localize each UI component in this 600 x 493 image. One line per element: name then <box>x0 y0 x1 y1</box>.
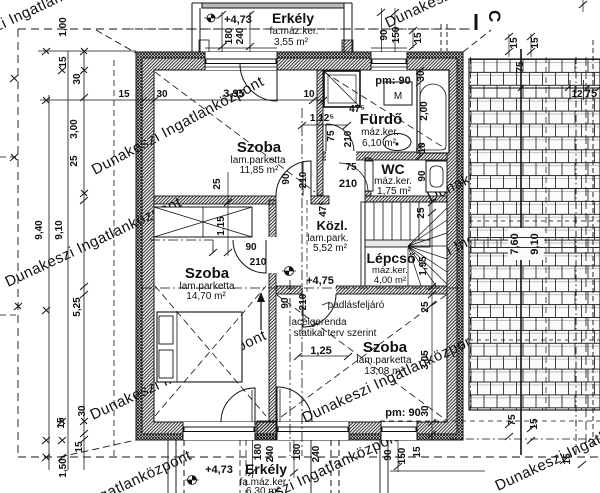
dashed vertical near left wall <box>113 60 115 456</box>
left dim chain lines <box>48 95 50 470</box>
svg-text:9,10: 9,10 <box>529 233 541 254</box>
svg-text:9,40: 9,40 <box>34 220 45 240</box>
partition wall A between top room and lower rooms <box>154 196 276 204</box>
dash-dot vertical right <box>575 57 577 455</box>
top balcony railing <box>202 3 344 8</box>
room diagonal TL <box>155 72 315 192</box>
washing machine M <box>384 82 412 105</box>
svg-text:1,25: 1,25 <box>310 345 331 357</box>
svg-text:3,00: 3,00 <box>69 119 80 139</box>
door arc BL balcony door <box>221 388 255 422</box>
roof tile area right <box>469 59 600 410</box>
top room dimension line <box>40 99 323 101</box>
svg-text:210: 210 <box>339 178 357 190</box>
svg-text:15: 15 <box>509 37 520 49</box>
hall left wall E <box>269 200 276 421</box>
svg-text:máz.ker.: máz.ker. <box>361 127 399 138</box>
svg-text:4,00 m²: 4,00 m² <box>374 275 406 286</box>
svg-text:10: 10 <box>303 89 315 100</box>
svg-text:30: 30 <box>72 73 83 85</box>
dashed dim band in tiles <box>469 220 600 222</box>
brick bottom ticks <box>505 421 586 468</box>
svg-text:30: 30 <box>420 405 431 417</box>
opening: bathroom window top <box>371 52 407 70</box>
svg-text:Szoba: Szoba <box>237 139 282 156</box>
dim line above top wall doors <box>205 47 277 49</box>
svg-text:15: 15 <box>413 32 424 44</box>
svg-text:1,00: 1,00 <box>58 17 69 37</box>
svg-text:Szoba: Szoba <box>363 339 408 356</box>
svg-text:3,05: 3,05 <box>420 350 431 370</box>
svg-text:240: 240 <box>311 445 322 462</box>
svg-text:3,95: 3,95 <box>223 88 244 100</box>
svg-text:90: 90 <box>383 449 394 461</box>
rotated dims <box>212 26 573 464</box>
bathtub <box>417 70 449 153</box>
svg-text:6,10 m²: 6,10 m² <box>362 138 397 149</box>
svg-text:5,52 m²: 5,52 m² <box>313 243 348 254</box>
roof outline dashed: left <box>17 29 19 457</box>
svg-text:2,00: 2,00 <box>419 101 430 121</box>
svg-text:5,25: 5,25 <box>72 297 83 317</box>
svg-text:WC: WC <box>381 161 404 177</box>
svg-text:1,50: 1,50 <box>58 458 69 478</box>
svg-text:240: 240 <box>235 27 246 44</box>
svg-text:1,95: 1,95 <box>418 256 429 276</box>
svg-text:15: 15 <box>562 453 573 465</box>
bottom right dashed lines <box>380 420 600 422</box>
level mark top balcony <box>204 14 218 22</box>
svg-text:Erkély: Erkély <box>272 10 314 26</box>
pier at bottom of wall E <box>257 421 276 434</box>
svg-text:75: 75 <box>515 61 526 73</box>
exterior insulation ring <box>136 52 463 440</box>
door arc bathroom <box>326 124 354 151</box>
section mark C line <box>475 14 478 30</box>
stair landing double line <box>365 240 430 247</box>
door arc hall to BL room <box>233 240 266 273</box>
svg-text:statikai terv szerint: statikai terv szerint <box>294 328 377 339</box>
svg-text:150: 150 <box>391 26 402 43</box>
svg-text:75: 75 <box>345 162 357 173</box>
brick top dim ticks <box>508 34 510 57</box>
svg-text:M: M <box>394 91 402 102</box>
svg-text:210: 210 <box>298 293 309 310</box>
door arc TL room to hall <box>276 161 311 196</box>
WC left wall <box>365 158 371 196</box>
svg-text:acélgerenda: acélgerenda <box>291 317 346 328</box>
roof outline dashed: bottom <box>18 456 600 458</box>
wardrobe height dim <box>227 172 229 256</box>
top right 15 tick <box>412 30 414 48</box>
svg-text:padlásfeljáró: padlásfeljáró <box>328 300 385 311</box>
bed in bottom-left room <box>157 312 242 382</box>
vertical line in tile area <box>520 49 522 455</box>
dimension line across tiles <box>469 87 600 89</box>
svg-text:15: 15 <box>118 89 130 100</box>
svg-text:15: 15 <box>74 441 85 453</box>
svg-text:6,30 m²: 6,30 m² <box>246 486 281 493</box>
svg-text:+4,73: +4,73 <box>205 464 233 476</box>
roof hip top-right <box>463 30 491 52</box>
partition junction at door TL <box>311 196 329 204</box>
BR niche dim 1,25 <box>298 355 348 357</box>
dash-dot vertical left of tiles <box>470 57 472 410</box>
WC hand basin <box>426 161 447 192</box>
svg-text:75: 75 <box>507 414 518 426</box>
svg-text:pm: 90: pm: 90 <box>385 407 420 419</box>
exterior main wall ring <box>142 58 457 434</box>
svg-text:90: 90 <box>281 173 292 185</box>
svg-text:30: 30 <box>156 89 168 100</box>
svg-text:210: 210 <box>343 130 354 147</box>
svg-text:210: 210 <box>250 257 267 268</box>
bottom balcony support posts dashed <box>176 440 184 493</box>
opening: window bottom right <box>381 422 417 440</box>
svg-text:11,85 m²: 11,85 m² <box>240 165 279 176</box>
svg-text:15: 15 <box>530 37 541 49</box>
svg-text:1,12⁵: 1,12⁵ <box>310 113 334 124</box>
dash-dot vertical kneewall line 2 <box>289 280 291 456</box>
left horizontal connector top <box>38 50 136 52</box>
door arc BR balcony door <box>277 387 312 422</box>
stair right chain <box>419 70 421 157</box>
svg-text:1,75 m²: 1,75 m² <box>377 186 412 197</box>
level mark hall <box>282 267 296 276</box>
svg-text:15: 15 <box>56 417 67 429</box>
svg-text:fa.máz.ker.: fa.máz.ker. <box>270 26 319 37</box>
svg-text:+4,73: +4,73 <box>224 14 252 26</box>
svg-text:+4,75: +4,75 <box>306 275 334 287</box>
tick ovals on tile centerline <box>508 228 544 260</box>
roof outline dashed: top <box>18 28 470 30</box>
leader to BL door <box>150 239 213 241</box>
svg-text:Szoba: Szoba <box>185 265 230 282</box>
bathroom bottom wall <box>323 152 447 160</box>
top balcony posts <box>199 40 209 52</box>
dash-dot vertical kneewall line 1 <box>301 108 303 456</box>
opening: balcony door top (TL room) <box>205 52 277 70</box>
svg-text:15: 15 <box>412 446 423 458</box>
opening: balcony door bottom right <box>277 422 349 440</box>
svg-text:30: 30 <box>416 70 427 82</box>
svg-text:Közl.: Közl. <box>316 218 347 233</box>
room diagonals BL X <box>155 286 266 416</box>
svg-text:7,60: 7,60 <box>509 233 521 254</box>
roof hip top-left <box>96 30 136 53</box>
dashed vertical far right <box>592 40 594 445</box>
bathroom sink oval <box>383 134 411 151</box>
dash-dot horizontal through BL room <box>142 287 462 289</box>
chimney dashed box above bathroom window <box>441 24 447 51</box>
opening: balcony door bottom left <box>183 422 255 440</box>
svg-text:12: 12 <box>571 89 583 100</box>
wardrobe with X in bottom-left room <box>154 207 252 237</box>
WC bottom wall / stair top wall <box>365 196 447 202</box>
svg-text:1,15: 1,15 <box>216 216 227 236</box>
svg-text:14,70 m²: 14,70 m² <box>186 291 226 302</box>
svg-text:47⁵: 47⁵ <box>349 104 365 115</box>
svg-text:75: 75 <box>585 88 597 100</box>
stair winder radiating lines <box>408 208 447 286</box>
svg-text:13,08 m²: 13,08 m² <box>364 366 404 377</box>
svg-text:180: 180 <box>224 27 235 44</box>
WC door leaf open <box>365 161 373 191</box>
svg-text:3,55 m²: 3,55 m² <box>274 37 309 48</box>
top balcony left edge <box>192 3 200 52</box>
svg-text:lam.parketta: lam.parketta <box>356 355 411 366</box>
svg-text:90: 90 <box>379 29 390 41</box>
svg-text:15: 15 <box>58 56 69 68</box>
svg-text:47⁵: 47⁵ <box>318 201 329 217</box>
svg-text:90: 90 <box>417 170 428 182</box>
svg-text:Lépcső: Lépcső <box>366 250 415 266</box>
svg-text:15: 15 <box>529 418 540 430</box>
svg-text:C: C <box>485 10 504 22</box>
svg-text:Erkély: Erkély <box>245 461 287 477</box>
left chain ticks <box>10 48 88 461</box>
shower dim line <box>302 124 347 126</box>
svg-text:25: 25 <box>212 178 223 190</box>
partition hall/stairs <box>361 202 366 286</box>
partition wall B between top room and bathroom <box>317 70 323 195</box>
left chain labels rotated <box>34 17 88 478</box>
stairs treads <box>365 202 447 286</box>
roof hip bottom-left <box>60 440 136 457</box>
svg-text:90: 90 <box>280 297 291 309</box>
bottom balcony edge lines <box>168 440 176 493</box>
svg-text:150: 150 <box>397 447 408 464</box>
svg-text:9,10: 9,10 <box>54 220 65 240</box>
svg-text:pm: 90: pm: 90 <box>375 75 410 87</box>
door arc balcony top <box>240 64 277 101</box>
shower tray in bathroom <box>324 71 360 107</box>
svg-text:25: 25 <box>416 207 427 219</box>
svg-text:180: 180 <box>253 443 264 460</box>
svg-text:180: 180 <box>292 443 303 460</box>
dashed line through top balcony <box>130 28 470 30</box>
level mark bottom balcony <box>185 476 199 485</box>
svg-text:90: 90 <box>245 242 257 253</box>
svg-text:10: 10 <box>417 142 428 154</box>
opening label dim lines <box>221 12 223 52</box>
svg-text:Fürdő: Fürdő <box>360 111 403 128</box>
svg-text:25: 25 <box>420 301 431 313</box>
svg-text:75: 75 <box>326 130 337 142</box>
svg-text:25: 25 <box>69 155 80 167</box>
door arc hall to BR room <box>303 294 336 327</box>
up arrow in hall <box>260 298 262 330</box>
top balcony right edge <box>344 3 352 52</box>
room diagonals BR X <box>277 295 446 420</box>
svg-text:30: 30 <box>77 405 88 417</box>
room diagonal bathroom <box>324 72 446 149</box>
hall bottom wall <box>276 286 447 294</box>
svg-text:240: 240 <box>265 445 276 462</box>
svg-text:210: 210 <box>298 171 309 188</box>
